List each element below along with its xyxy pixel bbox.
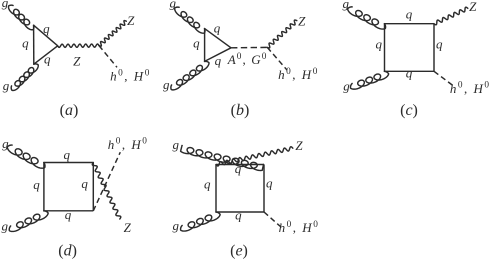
outgoing Z wavy crossed (d): [92, 163, 121, 220]
label q left (d): [33, 177, 40, 192]
label g bottom (c): [343, 78, 350, 93]
label g top (e): [173, 137, 180, 152]
label Z outgoing (b): [298, 13, 306, 28]
quark line bottom (e): [216, 211, 264, 213]
label q left (e): [204, 177, 211, 192]
label g bottom (e): [172, 218, 179, 233]
svg-text:(b): (b): [231, 102, 250, 119]
caption (d): [58, 243, 77, 259]
label q bottom (a): [44, 52, 51, 67]
label h0,H0 (b): [278, 67, 319, 82]
quark line left (e): [215, 165, 217, 213]
quark line left (c): [384, 24, 386, 72]
quark line top (b): [205, 29, 231, 48]
label q bottom (d): [65, 207, 72, 222]
svg-text:q: q: [63, 147, 70, 162]
quark line bottom (c): [385, 70, 435, 72]
svg-text:(a): (a): [60, 102, 79, 119]
svg-text:Z: Z: [298, 13, 306, 28]
svg-text:q: q: [214, 21, 221, 36]
label g bottom (d): [1, 219, 8, 234]
gluon g incoming bottom (d): [9, 211, 48, 232]
label Z outgoing (a): [127, 13, 135, 28]
quark line bottom (a): [34, 46, 58, 64]
label Z outgoing (c): [469, 0, 477, 14]
quark line right (e): [263, 165, 265, 213]
svg-text:(d): (d): [58, 243, 77, 259]
label q top (b): [214, 21, 221, 36]
svg-text:g: g: [2, 136, 9, 151]
label g top (b): [170, 0, 177, 10]
svg-text:g: g: [343, 78, 350, 93]
svg-text:q: q: [215, 53, 222, 68]
outgoing h dashed (b): [267, 47, 287, 70]
svg-text:q: q: [43, 21, 50, 36]
svg-text:q: q: [235, 208, 242, 223]
outgoing h dashed (c): [434, 71, 453, 85]
label q right (e): [266, 176, 273, 191]
quark line right (c): [433, 24, 435, 72]
caption (c): [400, 102, 418, 119]
label g top (a): [2, 0, 9, 10]
svg-text:g: g: [1, 219, 8, 234]
quark line top (a): [34, 25, 58, 46]
label q right (c): [436, 37, 443, 52]
svg-text:q: q: [375, 37, 382, 52]
svg-text:g: g: [2, 0, 9, 10]
svg-text:q: q: [65, 207, 72, 222]
gluon g incoming bottom (b): [171, 61, 209, 89]
caption (e): [230, 242, 248, 259]
label q left (c): [375, 37, 382, 52]
quark line left (d): [43, 163, 45, 211]
label q right (d): [81, 176, 88, 191]
gluon g incoming top (b): [175, 7, 205, 33]
label q left (a): [22, 36, 29, 51]
svg-text:h0, H0: h0, H0: [279, 220, 320, 235]
quark line left (a): [33, 25, 35, 64]
label g top (c): [343, 0, 350, 11]
outgoing Z wavy (a): [99, 21, 126, 47]
label g bottom (a): [3, 78, 10, 93]
outgoing h dashed crossed (d): [93, 152, 120, 211]
caption (a): [60, 102, 79, 119]
label Z propagator (a): [73, 54, 81, 69]
label g top (d): [2, 136, 9, 151]
gluon g incoming bottom (c): [350, 71, 388, 89]
outgoing Z wavy crossed (e): [216, 147, 293, 166]
Z propagator (a): [58, 44, 99, 47]
label q bottom (e): [235, 208, 242, 223]
svg-text:(e): (e): [230, 242, 248, 259]
gluon g incoming top crossed (e): [181, 146, 264, 171]
label q left (b): [193, 35, 200, 50]
quark line bottom (b): [205, 48, 231, 62]
A0/G0 dashed propagator (b): [231, 46, 267, 48]
label A0,G0 (b): [227, 52, 268, 67]
label Z outgoing (e): [295, 138, 303, 153]
svg-text:Z: Z: [469, 0, 477, 14]
label h0,H0 (a): [110, 68, 151, 83]
quark line top (d): [44, 162, 93, 164]
svg-text:h0, H0: h0, H0: [110, 68, 151, 83]
svg-text:q: q: [266, 176, 273, 191]
svg-text:q: q: [22, 36, 29, 51]
quark line bottom (d): [44, 210, 93, 212]
svg-text:g: g: [170, 0, 177, 10]
label q top (c): [406, 7, 413, 22]
gluon g incoming bottom (e): [181, 212, 221, 231]
label q bottom (c): [406, 66, 413, 81]
svg-text:g: g: [343, 0, 350, 11]
svg-text:g: g: [163, 77, 170, 92]
caption (b): [231, 102, 250, 119]
outgoing Z wavy (b): [267, 20, 297, 48]
label g bottom (b): [163, 77, 170, 92]
svg-text:Z: Z: [127, 13, 135, 28]
svg-text:q: q: [406, 66, 413, 81]
gluon g incoming bottom (a): [11, 64, 38, 91]
outgoing h dashed (a): [99, 46, 117, 68]
label h0,H0 (d): [108, 137, 149, 152]
svg-text:Z: Z: [124, 220, 132, 235]
svg-text:g: g: [173, 137, 180, 152]
gluon g incoming top (a): [8, 5, 33, 30]
label Z outgoing (d): [124, 220, 132, 235]
svg-text:g: g: [3, 78, 10, 93]
gluon g incoming top (c): [348, 7, 386, 29]
quark line left (b): [204, 29, 206, 62]
gluon g incoming top (d): [7, 145, 45, 168]
quark line right (d): [92, 163, 94, 211]
label h0,H0 (e): [279, 220, 320, 235]
svg-text:q: q: [44, 52, 51, 67]
label h0,H0 (c): [450, 81, 491, 96]
label q top (e): [235, 161, 242, 176]
svg-text:g: g: [172, 218, 179, 233]
label q top (a): [43, 21, 50, 36]
svg-text:q: q: [436, 37, 443, 52]
svg-text:h0, H0: h0, H0: [108, 137, 149, 152]
label q top (d): [63, 147, 70, 162]
svg-text:(c): (c): [400, 102, 418, 119]
svg-text:q: q: [193, 35, 200, 50]
svg-text:q: q: [406, 7, 413, 22]
svg-text:Z: Z: [73, 54, 81, 69]
outgoing h dashed (e): [264, 212, 281, 227]
label q bottom (b): [215, 53, 222, 68]
svg-text:h0, H0: h0, H0: [278, 67, 319, 82]
svg-text:q: q: [235, 161, 242, 176]
quark line top (e): [216, 164, 264, 166]
outgoing Z wavy (c): [434, 7, 468, 25]
svg-text:q: q: [204, 177, 211, 192]
svg-text:q: q: [33, 177, 40, 192]
svg-text:A0, G0: A0, G0: [227, 52, 268, 67]
quark line top (c): [385, 23, 435, 25]
svg-text:q: q: [81, 176, 88, 191]
svg-text:Z: Z: [295, 138, 303, 153]
svg-text:h0, H0: h0, H0: [450, 81, 491, 96]
